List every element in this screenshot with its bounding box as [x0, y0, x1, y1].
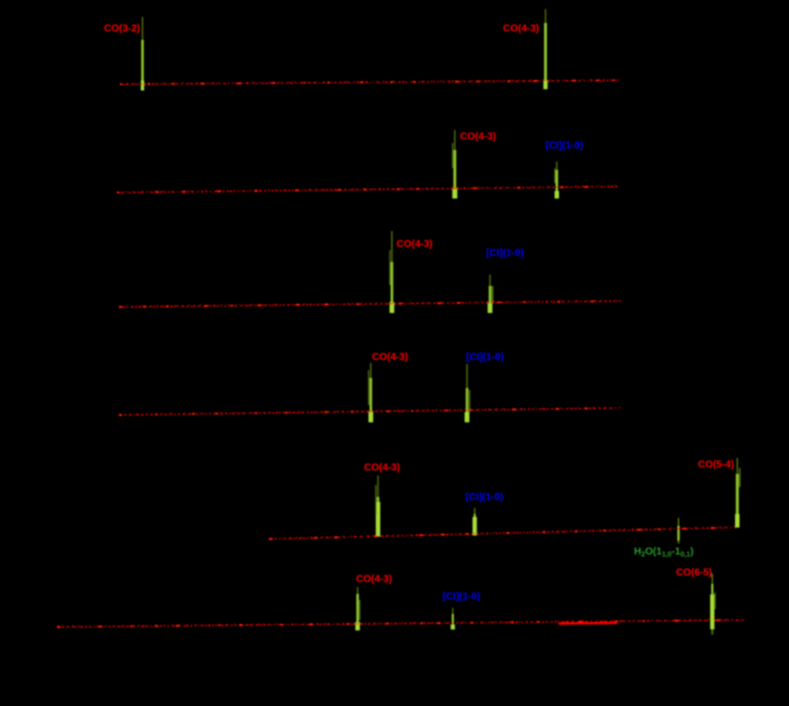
svg-text:CO(4-3): CO(4-3) [356, 574, 392, 585]
svg-text:[CI](1-0): [CI](1-0) [546, 141, 584, 152]
peak CO(4-3) spectrum 4 [368, 363, 373, 422]
baseline spectrum 5 [269, 527, 736, 540]
svg-text:[CI](1-0): [CI](1-0) [486, 248, 524, 259]
baseline spectrum 4 [119, 407, 621, 416]
peak [CI](1-0) spectrum 6 [451, 608, 455, 630]
baseline spectrum 1 [120, 79, 620, 85]
peak [CI](1-0) spectrum 3 [488, 275, 494, 313]
svg-text:CO(4-3): CO(4-3) [364, 463, 400, 474]
peak CO(6-5) spectrum 6 [710, 574, 715, 635]
peak CO(3-2) spectrum 1 [141, 17, 144, 91]
peak [CI](1-0) spectrum 5 [473, 508, 477, 536]
svg-text:CO(3-2): CO(3-2) [104, 24, 140, 35]
peak CO(4-3) spectrum 5 [375, 475, 380, 536]
peak H2O line spectrum 5 [677, 518, 679, 544]
peak CO(4-3) spectrum 3 [389, 231, 394, 313]
svg-text:[CI](1-0): [CI](1-0) [443, 592, 481, 603]
baseline spectrum 2 [117, 186, 617, 194]
solid red continuum segment spectrum 6 [559, 622, 618, 625]
peak CO(4-3) spectrum 1 [543, 9, 547, 89]
svg-text:CO(4-3): CO(4-3) [372, 352, 408, 363]
svg-text:[CI](1-0): [CI](1-0) [466, 492, 504, 503]
svg-text:CO(6-5): CO(6-5) [676, 568, 712, 579]
baseline spectrum 3 [119, 300, 621, 308]
svg-text:CO(4-3): CO(4-3) [460, 132, 496, 143]
svg-text:CO(4-3): CO(4-3) [397, 239, 433, 250]
peak [CI](1-0) spectrum 4 [465, 364, 471, 422]
peak CO(5-4) spectrum 5 [735, 458, 741, 528]
svg-text:CO(5-4): CO(5-4) [698, 460, 734, 471]
peak [CI](1-0) spectrum 2 [554, 162, 559, 199]
baseline spectrum 6 [57, 619, 745, 628]
peak CO(4-3) spectrum 6 [355, 587, 360, 630]
peak CO(4-3) spectrum 2 [452, 130, 457, 199]
svg-text:CO(4-3): CO(4-3) [503, 24, 539, 35]
svg-text:[CI](1-0): [CI](1-0) [466, 352, 504, 363]
